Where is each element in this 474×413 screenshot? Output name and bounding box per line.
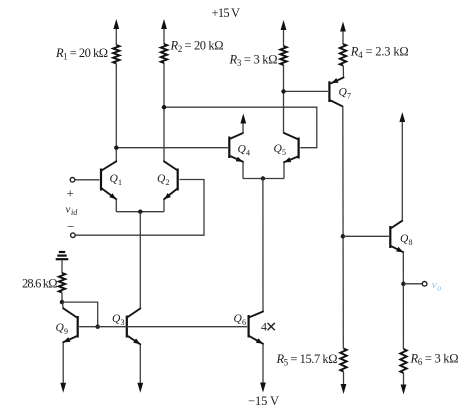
node Q4/Q5 emitters xyxy=(261,176,265,180)
wire R3 node to Q7 base xyxy=(284,90,328,92)
node 28.6k/Q9 junction xyxy=(60,300,64,304)
label 4x multiplier xyxy=(261,320,275,334)
wire Q6 emitter down xyxy=(262,344,264,384)
label vo xyxy=(432,279,442,293)
svg-text:4: 4 xyxy=(261,320,267,334)
wire R3 branch vertical xyxy=(283,27,285,133)
label R4 value xyxy=(350,45,409,61)
wire 28.6k to Q9 collector node xyxy=(61,293,63,303)
wire Q4/Q5 emitter rail xyxy=(243,178,284,180)
label R5 value xyxy=(276,352,338,368)
svg-text:6: 6 xyxy=(242,318,246,327)
svg-text:28.6 kΩ: 28.6 kΩ xyxy=(22,277,58,291)
wire R6 to -15V arrow xyxy=(403,373,405,386)
wire R1 node to Q4 base xyxy=(116,147,228,149)
-15V rail arrow below Q9 xyxy=(60,383,66,393)
svg-text:R3 = 3 kΩ: R3 = 3 kΩ xyxy=(229,53,278,69)
resistor R5 xyxy=(340,349,346,372)
label minus sign xyxy=(67,219,74,234)
label R3 value xyxy=(229,53,278,69)
svg-text:8: 8 xyxy=(409,238,413,247)
wire Q9 emitter down xyxy=(62,342,64,383)
transistor Q1 xyxy=(101,161,122,199)
node base-line junction xyxy=(96,325,100,329)
wire R5 to -15V arrow xyxy=(343,372,345,386)
wire Q5 emitter down xyxy=(283,162,285,178)
wire vo stub xyxy=(403,283,422,285)
label vid xyxy=(66,204,79,218)
wire Q7 collector to Q8 base xyxy=(343,235,389,237)
transistor Q2 xyxy=(157,161,178,199)
wire Q1 emitter to tail xyxy=(115,199,117,211)
-15V rail arrow below R6 xyxy=(401,385,407,395)
transistor Q9 xyxy=(56,308,78,342)
svg-text:v: v xyxy=(432,279,437,291)
-15V rail arrow below Q6 xyxy=(260,383,266,393)
wire Q4 emitter down xyxy=(242,162,244,179)
resistor R6 xyxy=(400,349,406,373)
svg-text:3: 3 xyxy=(121,318,125,327)
wire tail to Q6 collector xyxy=(262,179,264,312)
+15V rail arrow above Q4 xyxy=(240,114,246,124)
svg-text:4: 4 xyxy=(246,149,250,158)
terminal + input circle xyxy=(70,178,75,183)
node R1/Q4 base junction xyxy=(114,146,118,150)
wire - input to Q2 base xyxy=(75,180,204,236)
resistor R4 xyxy=(340,44,346,66)
wire Q9/Q3/Q6 base line xyxy=(79,326,247,328)
svg-text:2: 2 xyxy=(166,178,170,187)
node vo junction xyxy=(401,282,405,286)
wire tail down to Q3 collector xyxy=(139,212,141,309)
node R2/Q5 base junction xyxy=(162,105,166,109)
transistor Q5 xyxy=(274,133,299,162)
label 28.6 kOhm xyxy=(22,277,58,291)
-15V rail arrow below R5 xyxy=(341,384,347,394)
wire Q4 collector up xyxy=(242,121,244,133)
wire Q3 emitter down xyxy=(139,344,141,383)
svg-text:−: − xyxy=(67,219,74,234)
+15V rail arrow above R4 xyxy=(340,22,346,32)
terminal vo circle xyxy=(422,282,427,287)
transistor Q4 xyxy=(229,133,250,162)
+15V rail arrow above R1 xyxy=(113,19,119,29)
svg-text:R1 = 20 kΩ: R1 = 20 kΩ xyxy=(55,46,108,62)
svg-text:R6 = 3 kΩ: R6 = 3 kΩ xyxy=(410,352,459,368)
transistor Q7 xyxy=(329,78,351,107)
svg-text:id: id xyxy=(71,208,78,217)
wire Q1/Q2 emitter rail xyxy=(116,211,164,213)
+15V rail arrow above R3 xyxy=(281,20,287,30)
label R2 value xyxy=(170,39,224,55)
wire + input to Q1 base xyxy=(75,179,100,181)
svg-text:v: v xyxy=(66,204,71,216)
wire Q8 collector up xyxy=(401,121,403,221)
transistor Q3 xyxy=(112,309,140,345)
wire Q8 emitter down to R6 xyxy=(402,252,404,349)
wire R2 branch vertical xyxy=(163,26,165,161)
terminal - input circle xyxy=(71,233,76,238)
wire Q7 collector down to R5 xyxy=(342,106,345,348)
svg-text:o: o xyxy=(437,284,441,293)
label R6 value xyxy=(410,352,459,368)
ground xyxy=(56,252,69,259)
wire Q2 emitter to tail xyxy=(163,199,165,211)
resistor R2 xyxy=(161,44,167,63)
wire R2 node to Q5 base xyxy=(164,107,317,148)
wire ground to 28.6k resistor xyxy=(61,260,63,273)
+15V rail arrow above R2 xyxy=(161,19,167,29)
svg-text:−15 V: −15 V xyxy=(248,394,279,408)
label -15 V supply xyxy=(248,394,279,408)
svg-text:7: 7 xyxy=(347,92,351,101)
resistor R3 xyxy=(280,46,286,65)
+15V rail arrow above Q8 xyxy=(399,112,405,122)
svg-text:+15 V: +15 V xyxy=(212,6,241,20)
svg-text:9: 9 xyxy=(64,327,68,336)
wire R4 branch vertical xyxy=(342,29,345,79)
svg-text:5: 5 xyxy=(282,148,286,157)
transistor Q8 xyxy=(390,221,412,253)
svg-text:1: 1 xyxy=(118,178,122,187)
svg-text:+: + xyxy=(67,186,74,201)
wire Q9 collector vertical xyxy=(61,302,64,308)
label R1 value xyxy=(55,46,108,62)
node Q1/Q2 emitters xyxy=(138,210,142,214)
wire Q9 collector tie to base line xyxy=(62,302,98,327)
label + sign xyxy=(67,186,74,201)
resistor 28.6 kOhm xyxy=(59,273,65,293)
resistor R1 xyxy=(113,45,119,64)
node R3/Q7 base junction xyxy=(281,89,285,93)
transistor Q6 xyxy=(234,312,264,344)
svg-text:R2 = 20 kΩ: R2 = 20 kΩ xyxy=(170,39,224,55)
wire R1 branch vertical xyxy=(115,26,117,161)
label +15 V supply xyxy=(212,6,241,20)
-15V rail arrow below Q3 xyxy=(137,383,143,393)
node Q7 collector / Q8 base xyxy=(341,234,345,238)
